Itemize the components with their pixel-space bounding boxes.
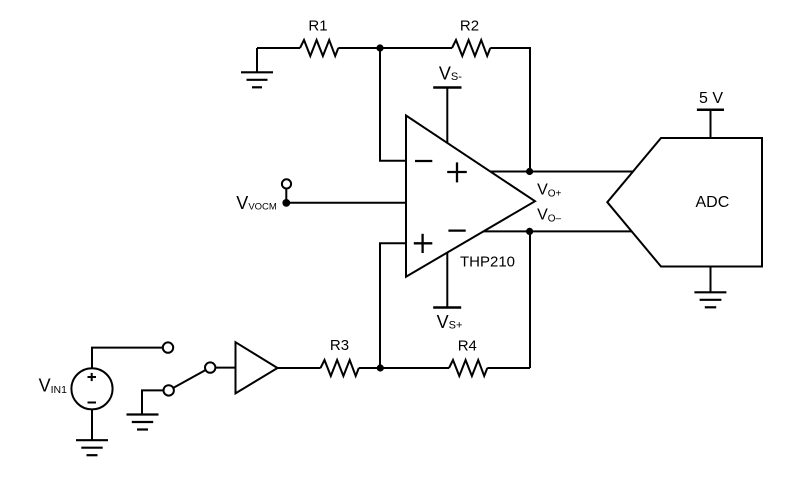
svg-text:R4: R4 — [458, 338, 477, 355]
svg-text:R2: R2 — [460, 18, 479, 35]
svg-text:R1: R1 — [308, 18, 327, 35]
svg-text:THP210: THP210 — [460, 254, 515, 271]
svg-text:R3: R3 — [330, 337, 349, 354]
svg-text:5 V: 5 V — [699, 90, 723, 107]
svg-text:ADC: ADC — [696, 194, 730, 211]
